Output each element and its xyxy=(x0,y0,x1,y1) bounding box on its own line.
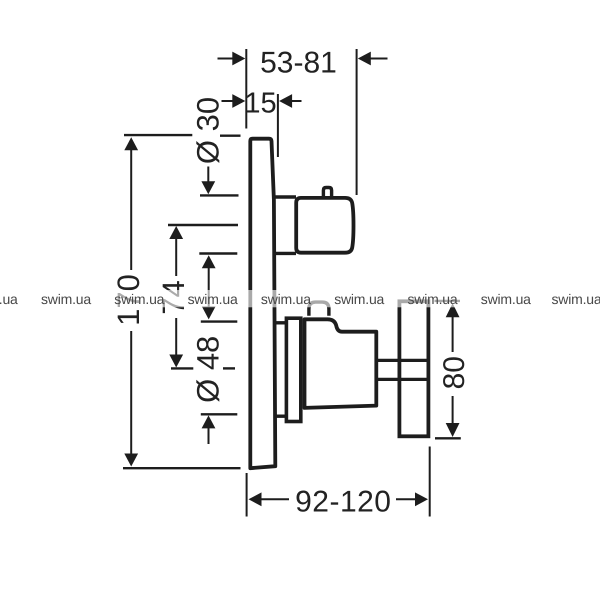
top stem upper edge xyxy=(274,195,297,198)
tick 74 top xyxy=(168,224,238,226)
dim Ø30 upper leader + down arrow xyxy=(207,167,209,184)
svg-text:swim.ua: swim.ua xyxy=(481,291,531,307)
svg-text:Ø 30: Ø 30 xyxy=(190,97,225,164)
double outward arrow between handles xyxy=(208,266,210,308)
dim 80 line + arrows xyxy=(452,316,454,352)
tick 74 bottom (broken by Ø48 text) xyxy=(171,367,193,369)
watermark texts xyxy=(0,291,600,307)
extension line right of 15 xyxy=(277,94,279,157)
svg-text:swim.ua: swim.ua xyxy=(261,291,311,307)
dim 15 left arrow xyxy=(222,100,234,102)
lower stubs plate-to-sleeve xyxy=(276,321,288,324)
stem lines to cross handle xyxy=(377,359,431,362)
top handle (thermostat control) xyxy=(296,198,353,253)
dim 92-120 right arrow xyxy=(396,498,416,500)
svg-text:swim.ua: swim.ua xyxy=(334,291,384,307)
lower handle body xyxy=(305,319,377,408)
svg-text:swim.ua: swim.ua xyxy=(408,291,458,307)
tick at top-handle top xyxy=(200,194,239,196)
cross handle bar xyxy=(399,301,428,436)
ext line 92-120 right xyxy=(429,447,431,517)
top stem lower edge xyxy=(274,252,297,255)
tick at lower-handle bottom xyxy=(201,413,238,415)
svg-text:80: 80 xyxy=(438,356,471,389)
wall plate xyxy=(250,139,275,469)
dim 15 right arrow xyxy=(292,100,302,102)
tick 170 top xyxy=(124,134,192,136)
svg-text:53-81: 53-81 xyxy=(260,47,337,80)
dim 53-81 left arrow xyxy=(218,58,234,60)
svg-text:92-120: 92-120 xyxy=(295,486,391,519)
arch bump on lower handle xyxy=(309,302,329,316)
dim 80 ticks xyxy=(435,300,461,302)
dim 92-120 left arrow xyxy=(249,492,262,506)
svg-text:swim.ua: swim.ua xyxy=(188,291,238,307)
svg-text:swim.ua: swim.ua xyxy=(114,291,164,307)
extension line left (plate front, for 53-81 / 15) xyxy=(245,49,247,129)
dim 170 vertical line xyxy=(130,148,132,270)
svg-text:Ø 48: Ø 48 xyxy=(190,336,225,403)
svg-text:swim.ua: swim.ua xyxy=(552,291,600,307)
tick at lower-handle top xyxy=(201,320,238,322)
ext line 92-120 left xyxy=(246,473,248,517)
dim 74 vertical line xyxy=(175,237,177,276)
extension line right of 53-81 xyxy=(356,49,358,195)
tick 170 bottom xyxy=(123,467,241,469)
dim 53-81 right arrow xyxy=(371,58,388,60)
top button on top handle xyxy=(323,188,331,197)
svg-text:15: 15 xyxy=(244,87,276,119)
lower sleeve flange xyxy=(286,318,300,421)
svg-text:swim.ua: swim.ua xyxy=(41,291,91,307)
watermark band xyxy=(0,290,600,307)
up arrow below Ø48 xyxy=(202,415,216,428)
tick at top-handle bottom xyxy=(199,252,237,254)
svg-text:swim.ua: swim.ua xyxy=(0,291,18,307)
